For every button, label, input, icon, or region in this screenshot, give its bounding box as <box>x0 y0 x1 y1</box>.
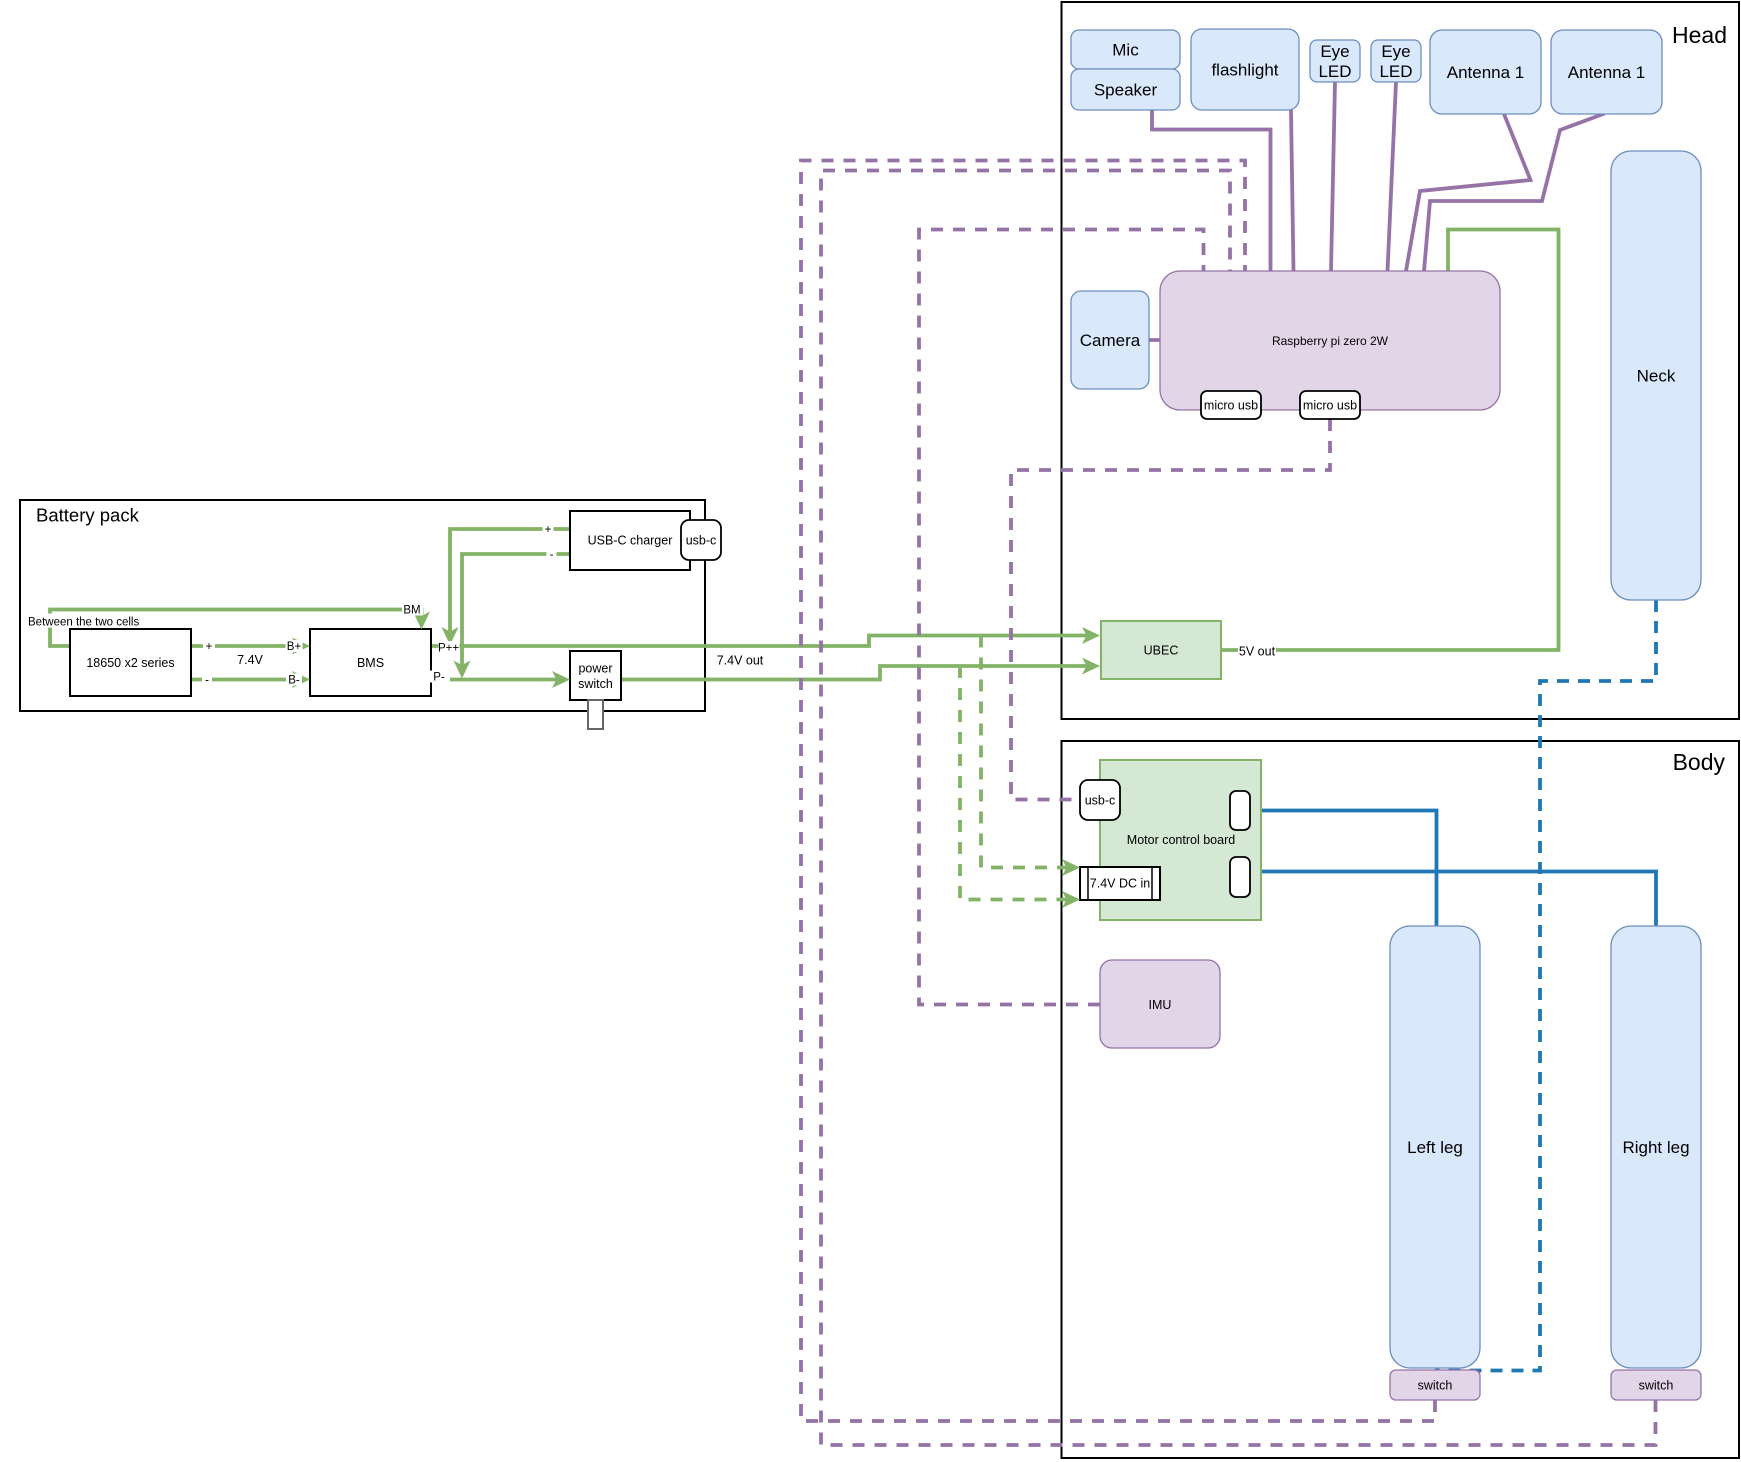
svg-text:IMU: IMU <box>1149 998 1172 1012</box>
box motor connector 1 <box>1230 791 1250 830</box>
svg-text:micro usb: micro usb <box>1204 399 1258 413</box>
svg-text:power: power <box>578 662 612 676</box>
wire BMS P- to power switch <box>431 678 559 682</box>
svg-text:Body: Body <box>1673 749 1726 775</box>
box flashlight <box>1191 29 1299 110</box>
wire USB-C charger plus <box>450 529 570 634</box>
box IMU <box>1100 960 1220 1048</box>
wire camera to pi <box>1149 338 1160 342</box>
label 7.4V out <box>715 652 765 668</box>
wire dashed 7.4V branch to motor board top input <box>981 636 1069 868</box>
svg-text:Head: Head <box>1672 22 1727 48</box>
label plus (cells) <box>203 641 215 654</box>
wire battery plus to BMS B+ <box>191 644 299 648</box>
box Motor control board <box>1100 760 1261 920</box>
wire speaker to pi <box>1152 110 1271 271</box>
label P- <box>429 671 450 684</box>
wire dashed IMU to pi <box>919 230 1204 1005</box>
svg-text:BMS: BMS <box>357 656 384 670</box>
box Left leg <box>1390 926 1480 1368</box>
wire eye LED 1 to pi <box>1331 82 1335 271</box>
arrow into 7.4V DC in top <box>1062 859 1080 876</box>
svg-text:BM: BM <box>403 605 420 617</box>
wire UBEC 5V out to Raspberry pi <box>1221 230 1559 651</box>
svg-text:-: - <box>205 675 209 687</box>
box Eye LED 2 <box>1371 40 1421 82</box>
svg-text:Antenna 1: Antenna 1 <box>1447 63 1525 82</box>
label B+ <box>286 640 303 653</box>
wire battery minus to BMS B- <box>191 678 299 682</box>
arrow charger minus down <box>454 661 471 679</box>
svg-text:18650 x2 series: 18650 x2 series <box>86 656 174 670</box>
wire BMS P++ to UBEC 7.4V <box>431 636 1090 647</box>
wire BM (between cells to BMS) <box>50 610 422 647</box>
svg-text:P-: P- <box>433 672 445 684</box>
box USB-C charger <box>570 511 690 570</box>
svg-text:Neck: Neck <box>1637 367 1676 386</box>
label minus (charger) <box>547 549 557 562</box>
svg-text:Motor control board: Motor control board <box>1127 833 1235 847</box>
box Antenna 1 (left) <box>1430 30 1541 114</box>
label 5V out <box>1238 643 1276 659</box>
wire dashed 7.4V branch to motor board bottom input <box>960 666 1069 900</box>
box usb-c charger port <box>681 520 721 560</box>
svg-text:Left leg: Left leg <box>1407 1138 1463 1157</box>
svg-text:Raspberry pi zero 2W: Raspberry pi zero 2W <box>1272 334 1389 348</box>
box Mic <box>1071 30 1180 69</box>
svg-text:5V out: 5V out <box>1239 645 1276 659</box>
box BMS <box>310 629 431 696</box>
wire USB-C charger minus <box>462 554 570 668</box>
svg-text:switch: switch <box>578 677 613 691</box>
box Speaker <box>1071 69 1180 110</box>
svg-text:UBEC: UBEC <box>1144 644 1179 658</box>
label B- <box>286 674 302 687</box>
svg-text:7.4V out: 7.4V out <box>717 654 764 668</box>
power switch tab <box>588 700 603 729</box>
box Eye LED 1 <box>1310 40 1360 82</box>
svg-text:+: + <box>545 524 552 536</box>
box micro usb 1 <box>1201 391 1261 419</box>
wire dashed right switch to pi <box>821 171 1656 1446</box>
arrow into 7.4V DC in bottom <box>1062 891 1080 908</box>
arrow into UBEC input 2 <box>1082 658 1100 675</box>
arrow B+ into BMS <box>292 638 310 655</box>
box UBEC <box>1101 621 1221 679</box>
box power switch <box>570 651 621 700</box>
wire dashed neck to left leg <box>1435 600 1656 1371</box>
wire dashed micro usb to motor usb-c <box>1011 419 1330 800</box>
label minus (cells) <box>202 674 212 687</box>
svg-text:7.4V: 7.4V <box>237 653 263 667</box>
wire dashed left switch to pi <box>801 161 1435 1422</box>
svg-text:flashlight: flashlight <box>1211 61 1278 80</box>
svg-text:Eye: Eye <box>1381 42 1410 61</box>
box Neck <box>1611 151 1701 600</box>
label 7.4V <box>236 652 264 667</box>
svg-text:micro usb: micro usb <box>1303 399 1357 413</box>
svg-text:P++: P++ <box>438 643 459 655</box>
box 7.4V DC in <box>1080 867 1160 900</box>
wire flashlight to pi <box>1291 110 1294 271</box>
container Body <box>1062 741 1740 1458</box>
box motor connector 2 <box>1230 857 1250 897</box>
label Between the two cells <box>27 614 139 629</box>
wire antenna 1 to pi <box>1406 114 1531 271</box>
arrow charger plus down <box>442 627 459 645</box>
svg-text:Speaker: Speaker <box>1094 81 1158 100</box>
box Raspberry pi zero 2W <box>1160 271 1500 410</box>
svg-text:switch: switch <box>1639 1379 1674 1393</box>
svg-text:usb-c: usb-c <box>686 534 717 548</box>
svg-text:switch: switch <box>1418 1379 1453 1393</box>
box micro usb 2 <box>1300 391 1360 419</box>
svg-text:Mic: Mic <box>1112 41 1139 60</box>
box usb-c motor port <box>1080 780 1120 820</box>
label plus (charger) <box>543 523 554 536</box>
svg-text:+: + <box>206 641 213 653</box>
svg-text:USB-C charger: USB-C charger <box>588 534 673 548</box>
svg-text:Right leg: Right leg <box>1622 1138 1689 1157</box>
box Camera <box>1071 291 1149 389</box>
svg-text:usb-c: usb-c <box>1085 794 1116 808</box>
wire eye LED 2 to pi <box>1388 82 1397 271</box>
svg-text:B-: B- <box>288 675 300 687</box>
svg-text:Antenna 1: Antenna 1 <box>1568 63 1646 82</box>
box Antenna 1 (right) <box>1551 30 1662 114</box>
svg-text:-: - <box>550 549 554 561</box>
box switch right <box>1611 1370 1701 1400</box>
wire motor board to left leg <box>1250 811 1437 927</box>
arrow BM into BMS <box>413 612 430 630</box>
svg-text:Camera: Camera <box>1080 331 1141 350</box>
svg-text:Between the two cells: Between the two cells <box>28 617 139 629</box>
label BM <box>402 604 423 617</box>
arrow into power switch <box>552 671 570 688</box>
label P++ <box>438 641 460 655</box>
svg-text:Battery pack: Battery pack <box>36 505 140 526</box>
arrow into UBEC input 1 <box>1082 627 1100 644</box>
svg-text:LED: LED <box>1379 62 1412 81</box>
svg-text:Eye: Eye <box>1320 42 1349 61</box>
box 18650 x2 series <box>70 629 191 696</box>
container Head <box>1062 2 1740 719</box>
box Right leg <box>1611 926 1701 1368</box>
wire power switch to UBEC <box>621 666 1090 680</box>
container Battery pack <box>20 500 705 711</box>
arrow B- into BMS <box>292 671 310 688</box>
svg-text:7.4V DC in: 7.4V DC in <box>1090 877 1150 891</box>
wire motor board to right leg <box>1250 872 1656 927</box>
wire antenna 2 to pi <box>1424 114 1605 272</box>
box switch left <box>1390 1370 1480 1400</box>
svg-text:B+: B+ <box>287 641 302 653</box>
svg-text:LED: LED <box>1318 62 1351 81</box>
